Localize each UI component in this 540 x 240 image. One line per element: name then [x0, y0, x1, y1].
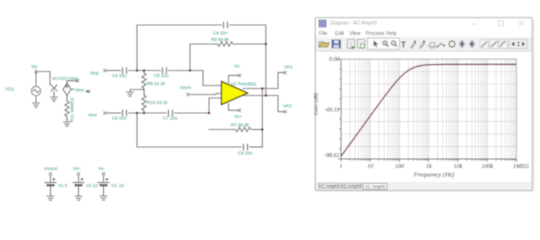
svg-text:V2 12: V2 12: [86, 183, 98, 188]
svg-text:R7 56.9k: R7 56.9k: [231, 123, 250, 128]
svg-text:10: 10: [367, 164, 373, 170]
svg-text:Edit: Edit: [335, 31, 344, 37]
svg-text:1: 1: [340, 164, 343, 170]
svg-text:Process: Process: [366, 31, 385, 37]
svg-text:VCVS3 (Vinp: VCVS3 (Vinp: [52, 76, 79, 81]
svg-text:AC Amp#2: AC Amp#2: [341, 183, 362, 188]
svg-text:V1 5: V1 5: [58, 183, 68, 188]
svg-text:Vs+: Vs+: [234, 114, 242, 119]
svg-text:C6 22u: C6 22u: [112, 116, 127, 121]
svg-text:R8 24.1k: R8 24.1k: [147, 81, 166, 86]
svg-text:Vinn: Vinn: [88, 113, 97, 118]
svg-text:AC Amp#3: AC Amp#3: [365, 184, 386, 189]
svg-text:Vinn: Vinn: [75, 88, 84, 93]
svg-text:-98.62: -98.62: [324, 153, 340, 159]
svg-text:C8 22n: C8 22n: [238, 151, 253, 156]
svg-text:R11 10MEG: R11 10MEG: [70, 97, 75, 122]
svg-text:C7 22u: C7 22u: [163, 116, 178, 121]
svg-text:R10 24.1k: R10 24.1k: [147, 100, 168, 105]
svg-text:Vs-: Vs-: [234, 64, 241, 69]
svg-text:Vin: Vin: [31, 64, 38, 69]
svg-text:T: T: [401, 41, 406, 50]
svg-text:C5 22u: C5 22u: [154, 73, 169, 78]
svg-text:Vs-: Vs-: [98, 166, 105, 171]
svg-text:V3 -12: V3 -12: [111, 183, 125, 188]
svg-text:VP2: VP2: [283, 104, 292, 109]
svg-text:File: File: [319, 31, 327, 37]
svg-text:Vocm: Vocm: [180, 85, 192, 90]
svg-text:100k: 100k: [481, 164, 493, 170]
svg-text:-49.31: -49.31: [324, 107, 340, 114]
svg-text:C9 22n: C9 22n: [213, 31, 228, 36]
svg-text:1k: 1k: [426, 164, 432, 170]
svg-text:100: 100: [395, 164, 404, 170]
svg-text:VP1: VP1: [284, 65, 293, 70]
svg-text:AC Amp#1: AC Amp#1: [319, 183, 340, 188]
svg-text:Vsocm: Vsocm: [44, 166, 58, 171]
svg-text:0.00: 0.00: [329, 57, 340, 63]
svg-text:Frequency (Hz): Frequency (Hz): [413, 172, 455, 179]
svg-text:Diagram - AC Amp#3: Diagram - AC Amp#3: [330, 21, 377, 27]
svg-text:10k: 10k: [454, 164, 463, 170]
svg-text:Vs+: Vs+: [73, 166, 81, 171]
svg-text:C4 22u: C4 22u: [112, 73, 127, 78]
svg-text:Gain (dB): Gain (dB): [313, 93, 320, 115]
svg-text:Help: Help: [386, 31, 397, 37]
svg-text:Vinp: Vinp: [90, 71, 99, 76]
svg-text:VG2: VG2: [5, 87, 15, 92]
svg-text:1MEG: 1MEG: [513, 164, 530, 170]
svg-text:R9 56.9k: R9 56.9k: [211, 37, 230, 42]
svg-text:View: View: [350, 31, 361, 37]
svg-text:U2 THS4551: U2 THS4551: [231, 82, 257, 87]
